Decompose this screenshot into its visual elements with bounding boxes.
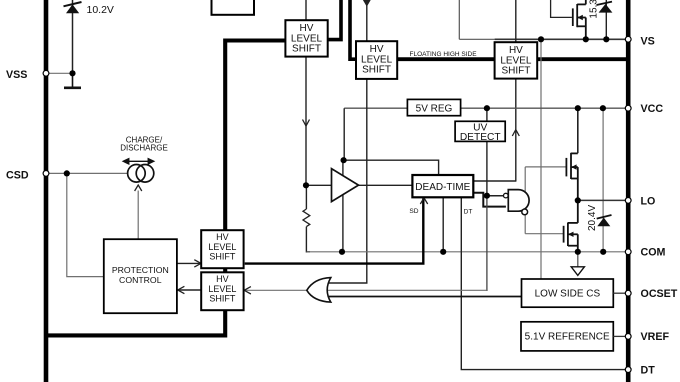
svg-text:15.3V: 15.3V [589,0,600,19]
svg-text:SHIFT: SHIFT [292,44,321,55]
node: VSS-zener junction [69,70,75,76]
node: VCC junction at zener D3 [600,105,606,111]
wire: VSS pin stub [49,72,73,74]
transistor M2 lower LO driver body [564,200,578,251]
svg-text:SHIFT: SHIFT [501,66,530,77]
box: HV LEVEL SHIFT U3 [495,42,538,78]
wire: branch down to COM rail through comparator [342,160,344,252]
wire: dead-time lower-right stub to NAND input 2 [473,193,506,207]
svg-text:OCSET: OCSET [641,288,678,300]
wire: protection control to HV level shift U4 (arrow right) [177,262,201,264]
wire: LOW SIDE CS output to OCSET pin [613,292,626,294]
svg-text:VSS: VSS [6,69,27,81]
box: UV DETECT [455,121,505,143]
box: 5V REG [407,99,460,115]
svg-text:SHIFT: SHIFT [209,294,236,304]
wire: VS rail left segment [459,38,494,40]
node: COM junction at zener D3 [600,249,606,255]
svg-text:5.1V REFERENCE: 5.1V REFERENCE [525,331,610,342]
pin VS [625,36,631,42]
node: VS junction at zener D2 [603,36,609,42]
box: 5.1V REFERENCE [521,322,613,351]
OR gate G2 (pointing left) [307,278,331,303]
svg-text:CSD: CSD [6,169,29,181]
node: COM junction at M2 source [575,249,581,255]
svg-text:LO: LO [641,195,656,207]
pin OCSET [625,290,631,296]
svg-text:SHIFT: SHIFT [362,65,391,76]
node: NAND input junction [484,193,490,199]
wire: UV detect / NAND input 1 column [486,108,488,196]
wire: IC right boundary bus (pin side) [626,0,631,382]
wire: dead-time right output to HV level shift U3 [473,180,516,182]
wire: CSD node down to protection control [67,173,104,276]
svg-text:COM: COM [641,247,666,259]
node: VS junction at CS sense line [538,36,544,42]
transistor M2 source arrow [568,232,573,237]
wire: resistor top lead [305,185,307,209]
wire: VCC rail from 5V REG to VCC pin [461,107,626,109]
box: PROTECTION CONTROL [104,239,177,313]
wire: NAND node down to OR output net [486,196,488,291]
NAND gate G1 [508,190,529,212]
wire: 5V rail down then to dead-time top [344,108,438,175]
node: COM junction at dead-time branch [440,249,446,255]
resistor R1 [303,209,310,227]
pin COM [625,249,631,255]
wire: signal from HV level shift U3 down/up column [515,0,517,181]
arrowhead down at top of U2 column [363,0,371,7]
svg-text:LEVEL: LEVEL [208,284,236,294]
svg-text:SD: SD [409,208,418,215]
wire: gate drive net from NAND output to driver gates [524,167,526,234]
wire: buffer output to dead-time [359,184,413,186]
svg-text:VCC: VCC [641,103,664,115]
wire: LO node to LO pin [578,199,626,201]
node: VS junction at M0 source [583,36,589,42]
wire: VS rail to VS pin [495,38,626,40]
wire: VS sense line down to LOW SIDE CS [540,39,542,279]
svg-text:DETECT: DETECT [460,132,501,143]
pin VSS [43,70,49,76]
node: comparator input junction [303,182,309,188]
ground symbol below VSS node [72,73,74,87]
box: DEAD-TIME [412,175,473,197]
arrowhead up on U3 column [512,130,519,136]
box: HV LEVEL SHIFT U4 [201,230,243,268]
wire: comparator input node to buffer [306,184,332,186]
pin VCC [625,105,631,111]
wire: protection control to current source (up arrow) [137,191,139,240]
arrowhead down on U1 column [303,120,310,127]
box: cropped oscillator box top left [212,0,255,15]
zener D1 10.2V on VSS [64,0,82,73]
wire: VCC zener string column [602,108,604,252]
svg-text:10.2V: 10.2V [87,4,114,16]
box: HV LEVEL SHIFT U2 [356,41,397,79]
transistor M1 body [566,153,577,201]
wire: thick line from top into HV level shift U2 [350,0,357,59]
pin CSD [43,171,49,177]
hollow arrow from COM into LOW SIDE CS [577,254,579,267]
node: VCC junction at UV detect [484,105,490,111]
wire: reference output to VREF pin [613,335,626,337]
svg-text:CONTROL: CONTROL [119,275,162,285]
current source I1 (charge/discharge) [128,165,146,183]
wire: OR gate lower input from LOW SIDE CS [329,296,522,298]
arrowhead up into dead-time SD [420,198,427,204]
svg-text:LOW SIDE CS: LOW SIDE CS [535,289,601,300]
wire: upper driver gate wire [525,166,565,168]
svg-text:DISCHARGE: DISCHARGE [120,144,168,153]
wire: thick output of HV level shift U1 going up [328,0,341,40]
svg-text:PROTECTION: PROTECTION [112,265,169,275]
op-amp buffer A1 [332,169,359,202]
wire: resistor bottom lead to COM rail [306,227,310,252]
wire: VS node vertical entering from top [458,0,460,39]
box: LOW SIDE CS [522,279,614,307]
svg-text:HV: HV [216,232,229,242]
wire: IC left boundary bus (VSS side) [44,0,49,382]
svg-text:DEAD-TIME: DEAD-TIME [415,182,470,193]
svg-text:SHIFT: SHIFT [209,252,236,262]
svg-text:VREF: VREF [641,331,670,343]
zener D2 15.3V (VB-VS clamp) [597,0,613,39]
transistor M0 high side (top right) gate wire [551,0,572,17]
wire: HV level shift U5 to protection control (arrow left) [178,289,202,291]
wire: dead-time middle bottom line to COM [442,197,444,252]
wire: lower driver gate wire [525,233,563,235]
node: CSD junction [64,170,70,176]
node: LO node junction [575,197,581,203]
svg-text:FLOATING HIGH SIDE: FLOATING HIGH SIDE [410,51,478,58]
wire: CSD pin to current source [49,172,128,174]
svg-text:HV: HV [216,274,229,284]
wire: OR gate output to HV level shift U5 [245,289,487,291]
pin VREF [625,334,631,340]
NAND input 1 inverting bubble [504,193,509,198]
wire: 5V REG output left rail [344,107,407,109]
wire: NAND input 1 from junction [487,195,504,197]
node: VCC junction at M1 drain [575,105,581,111]
svg-text:20.4V: 20.4V [587,205,598,231]
arrowhead left into HV level shift U5 [244,287,251,294]
box: HV LEVEL SHIFT U5 [201,272,243,310]
wire: HV level shift U2 signal column down to OR gate input [329,0,367,283]
wire: thick HV bus from top into HV level shift column [48,41,285,336]
transistor M1 source arrow [571,164,576,169]
NAND output bubble [522,209,528,215]
node: COM junction at comparator branch [339,249,345,255]
box: HV LEVEL SHIFT U1 [285,20,327,56]
svg-text:5V REG: 5V REG [416,103,453,114]
svg-text:DT: DT [641,365,656,377]
transistor M0 source arrow [577,15,582,20]
transistor M1 upper LO driver: drain to VCC [577,108,579,153]
pin LO [625,198,631,204]
wire: floating high side thick rail [397,57,628,61]
svg-text:DT: DT [464,209,473,216]
wire: DT line from dead-time to DT pin [461,197,626,369]
wire: SD feed from HV level shift U4 to dead-time [245,199,424,264]
svg-text:VS: VS [641,35,655,47]
wire: COM internal rail [307,251,626,253]
wire: HV level shift U1 signal column down to comparator input [305,0,307,185]
pin DT [625,367,631,373]
bidirectional arrow above current source [123,159,154,164]
zener D3 20.4V (VCC clamp) [597,215,612,226]
svg-text:LEVEL: LEVEL [208,242,236,252]
node: 5V rail corner junction [341,157,347,163]
transistor M0 body [573,0,586,39]
